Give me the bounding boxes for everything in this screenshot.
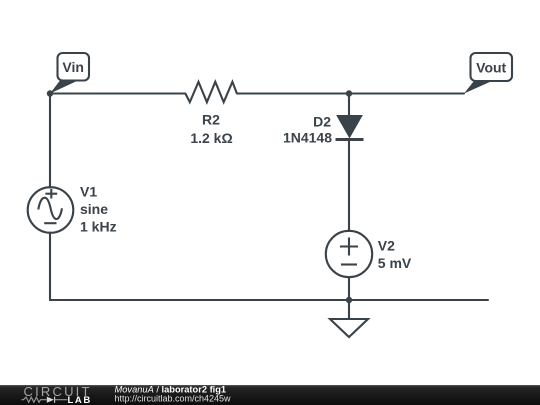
resistor R2 (185, 82, 237, 102)
ground (330, 319, 368, 337)
svg-text:LAB: LAB (68, 395, 92, 405)
svg-text:Vin: Vin (62, 59, 84, 75)
voltage source V2 (326, 231, 372, 277)
voltage source V1 (sine) (28, 187, 74, 233)
diode D2 (336, 116, 364, 140)
footer bar (0, 385, 540, 405)
net flag Vin (50, 53, 89, 94)
wire top-left horizontal (Vin node to R2) (50, 92, 185, 94)
node D2 anode (junction dot) (346, 90, 352, 96)
svg-text:1.2 kΩ: 1.2 kΩ (190, 130, 232, 146)
node Vin (junction dot) (47, 90, 53, 96)
svg-text:1N4148: 1N4148 (283, 129, 332, 145)
wire top-right horizontal (R2 to Vout) (237, 92, 464, 94)
wire left vertical (Vin node to V1 top) (49, 94, 51, 188)
wire middle vertical (V2 bottom to bottom rail) (348, 277, 350, 300)
svg-text:D2: D2 (313, 114, 331, 130)
CircuitLab logo: resistor-diode squiggle (22, 397, 68, 403)
wire bottom rail (50, 299, 488, 301)
svg-text:Vout: Vout (476, 60, 506, 76)
wire middle vertical (top rail to D2 anode) (348, 94, 350, 117)
svg-text:5 mV: 5 mV (378, 255, 412, 271)
svg-text:1 kHz: 1 kHz (80, 219, 117, 235)
svg-text:http://circuitlab.com/ch4245w: http://circuitlab.com/ch4245w (115, 394, 232, 404)
svg-text:R2: R2 (202, 112, 220, 128)
svg-text:sine: sine (80, 201, 108, 217)
wire left vertical (V1 bottom to bottom rail) (49, 233, 51, 301)
wire ground stub (348, 300, 350, 319)
wire middle vertical (D2 cathode to V2 top) (348, 140, 350, 232)
svg-text:V2: V2 (378, 238, 395, 254)
svg-text:V1: V1 (80, 184, 97, 200)
net flag Vout (464, 53, 512, 94)
node ground (junction dot) (346, 297, 352, 303)
